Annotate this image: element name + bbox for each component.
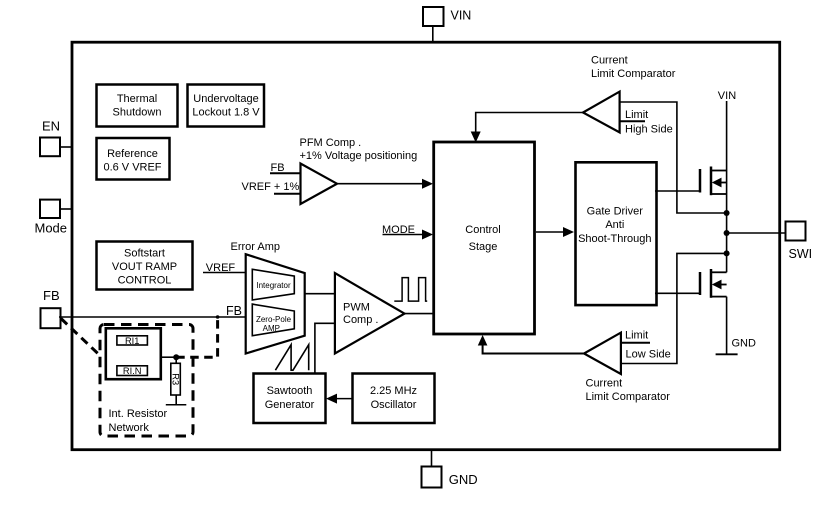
svg-text:PFM Comp .: PFM Comp . bbox=[300, 137, 362, 149]
block Control Stage bbox=[434, 142, 535, 334]
pin Mode bbox=[35, 200, 73, 236]
svg-text:Thermal: Thermal bbox=[117, 93, 157, 105]
block Integrator (inside error amp) bbox=[252, 269, 294, 300]
block Zero-Pole AMP (inside error amp) bbox=[252, 304, 294, 336]
pin GND (bottom) bbox=[422, 451, 478, 488]
svg-text:Current: Current bbox=[586, 378, 623, 390]
resistor RI1 bbox=[117, 336, 147, 346]
svg-text:R3: R3 bbox=[171, 373, 181, 385]
pin EN bbox=[40, 119, 72, 157]
svg-text:Limit: Limit bbox=[625, 330, 648, 342]
block Sawtooth Generator bbox=[254, 374, 326, 424]
svg-text:Network: Network bbox=[109, 422, 150, 434]
node dot SW bottom bbox=[724, 250, 730, 256]
transistor high-side MOSFET bbox=[655, 167, 727, 214]
svg-text:+1% Voltage positioning: +1% Voltage positioning bbox=[300, 150, 418, 162]
svg-text:Stage: Stage bbox=[469, 241, 498, 253]
svg-text:Int. Resistor: Int. Resistor bbox=[109, 408, 168, 420]
wire FB line from FB pin to error amp bbox=[59, 304, 246, 318]
wire high-side sense line to SW node bbox=[620, 102, 724, 213]
svg-text:Limit Comparator: Limit Comparator bbox=[586, 391, 671, 403]
svg-text:2.25 MHz: 2.25 MHz bbox=[370, 385, 417, 397]
svg-text:VOUT RAMP: VOUT RAMP bbox=[112, 261, 177, 273]
svg-text:AMP .: AMP . bbox=[263, 324, 285, 333]
svg-text:Gate Driver: Gate Driver bbox=[587, 206, 644, 218]
svg-text:Integrator: Integrator bbox=[256, 281, 291, 290]
comparator PWM Comp bbox=[335, 273, 405, 353]
svg-text:RI1: RI1 bbox=[125, 336, 139, 346]
svg-text:RI.N: RI.N bbox=[123, 366, 142, 376]
wire SW node vertical bbox=[726, 213, 728, 253]
svg-text:SWI: SWI bbox=[789, 247, 813, 261]
icon sawtooth waveform bbox=[275, 345, 308, 371]
svg-text:Shoot-Through: Shoot-Through bbox=[578, 233, 651, 245]
svg-text:FB: FB bbox=[226, 304, 242, 318]
svg-text:Low Side: Low Side bbox=[626, 349, 671, 361]
wire low-side comparator output to Control Stage bottom with arrow bbox=[478, 335, 584, 354]
wire oscillator to sawtooth with arrow bbox=[326, 394, 353, 404]
wire PFM comp output to Control Stage with arrow bbox=[337, 179, 433, 189]
wire FB input to PFM comp bbox=[270, 162, 301, 174]
wire PWM comp output to Control Stage bbox=[405, 313, 434, 315]
svg-text:Control: Control bbox=[465, 224, 500, 236]
svg-text:CONTROL: CONTROL bbox=[118, 275, 172, 287]
net VIN (internal) bbox=[718, 90, 736, 171]
svg-text:Zero-Pole: Zero-Pole bbox=[256, 315, 292, 324]
op-amp Error Amp bbox=[231, 241, 305, 354]
svg-text:Lockout 1.8 V: Lockout 1.8 V bbox=[192, 107, 260, 119]
pin VIN (top) bbox=[423, 7, 471, 42]
svg-text:VIN: VIN bbox=[718, 90, 736, 102]
node dot resistor tap bbox=[173, 354, 179, 360]
svg-text:Oscillator: Oscillator bbox=[371, 399, 417, 411]
pin SWI bbox=[786, 222, 813, 262]
pin FB bbox=[41, 288, 61, 328]
resistor RI.N bbox=[117, 366, 147, 376]
svg-text:Shutdown: Shutdown bbox=[113, 107, 162, 119]
svg-text:Softstart: Softstart bbox=[124, 248, 165, 260]
svg-text:Anti: Anti bbox=[605, 219, 624, 231]
wire SW node to SWI pin bbox=[727, 232, 786, 234]
resistor R3 bbox=[171, 357, 181, 405]
svg-text:VREF + 1%: VREF + 1% bbox=[242, 181, 300, 193]
svg-text:Reference: Reference bbox=[107, 148, 158, 160]
wire Control Stage to Gate Driver with arrow bbox=[536, 227, 574, 237]
svg-text:Limit Comparator: Limit Comparator bbox=[591, 68, 676, 80]
wire dashed tap to FB line bbox=[176, 317, 217, 357]
svg-text:Error Amp: Error Amp bbox=[231, 241, 281, 253]
wire VREF+1% input to PFM comp bbox=[242, 181, 301, 194]
wire dashed diagonal from FB pin to resistor network bbox=[61, 319, 101, 357]
wire high-side comparator output to Control Stage top with arrow bbox=[471, 113, 583, 143]
node dot SW top bbox=[724, 210, 730, 216]
svg-text:Mode: Mode bbox=[35, 221, 68, 236]
block Gate Driver Anti Shoot-Through bbox=[576, 162, 657, 305]
svg-text:Current: Current bbox=[591, 54, 628, 66]
svg-text:Limit: Limit bbox=[625, 109, 648, 121]
svg-text:GND: GND bbox=[732, 338, 757, 350]
box resistor string bbox=[106, 328, 161, 379]
ground GND (internal) bbox=[716, 297, 756, 355]
svg-text:FB: FB bbox=[43, 288, 60, 303]
svg-text:Sawtooth: Sawtooth bbox=[267, 385, 313, 397]
wire error amp output to PWM comp bbox=[305, 293, 335, 295]
node dot FB bbox=[216, 315, 220, 319]
svg-text:Generator: Generator bbox=[265, 399, 315, 411]
svg-text:0.6 V VREF: 0.6 V VREF bbox=[103, 162, 161, 174]
icon PWM square wave bbox=[394, 278, 427, 302]
svg-text:PWM: PWM bbox=[343, 302, 370, 314]
svg-text:Undervoltage: Undervoltage bbox=[193, 93, 258, 105]
comparator Current Limit Low Side bbox=[584, 330, 671, 404]
node dot SW middle bbox=[724, 230, 730, 236]
block 2.25 MHz Oscillator bbox=[353, 374, 435, 424]
comparator Current Limit High Side bbox=[583, 54, 676, 135]
block Thermal Shutdown bbox=[97, 85, 178, 127]
svg-text:FB: FB bbox=[271, 162, 285, 174]
wire sawtooth generator to PWM comp input bbox=[315, 323, 335, 373]
svg-text:VREF: VREF bbox=[206, 262, 236, 274]
box dashed Int. Resistor Network bbox=[100, 325, 193, 437]
block Reference 0.6V VREF bbox=[97, 138, 170, 180]
svg-text:GND: GND bbox=[449, 472, 478, 487]
comparator PFM Comp U-PFM bbox=[300, 137, 418, 204]
svg-text:High Side: High Side bbox=[625, 123, 673, 135]
transistor low-side MOSFET bbox=[655, 253, 727, 297]
block Softstart VOUT RAMP CONTROL bbox=[97, 242, 193, 290]
svg-text:Comp .: Comp . bbox=[343, 314, 378, 326]
wire low-side sense line from SW node bbox=[621, 253, 727, 363]
wire VREF input to error amp bbox=[203, 262, 246, 274]
ground bar below R3 bbox=[166, 404, 187, 406]
svg-text:EN: EN bbox=[42, 119, 60, 134]
block Undervoltage Lockout bbox=[188, 85, 265, 127]
node MODE input bbox=[382, 224, 433, 240]
main IC boundary box bbox=[72, 42, 780, 450]
svg-text:VIN: VIN bbox=[451, 9, 472, 23]
wire resistor string to node bbox=[161, 356, 176, 358]
